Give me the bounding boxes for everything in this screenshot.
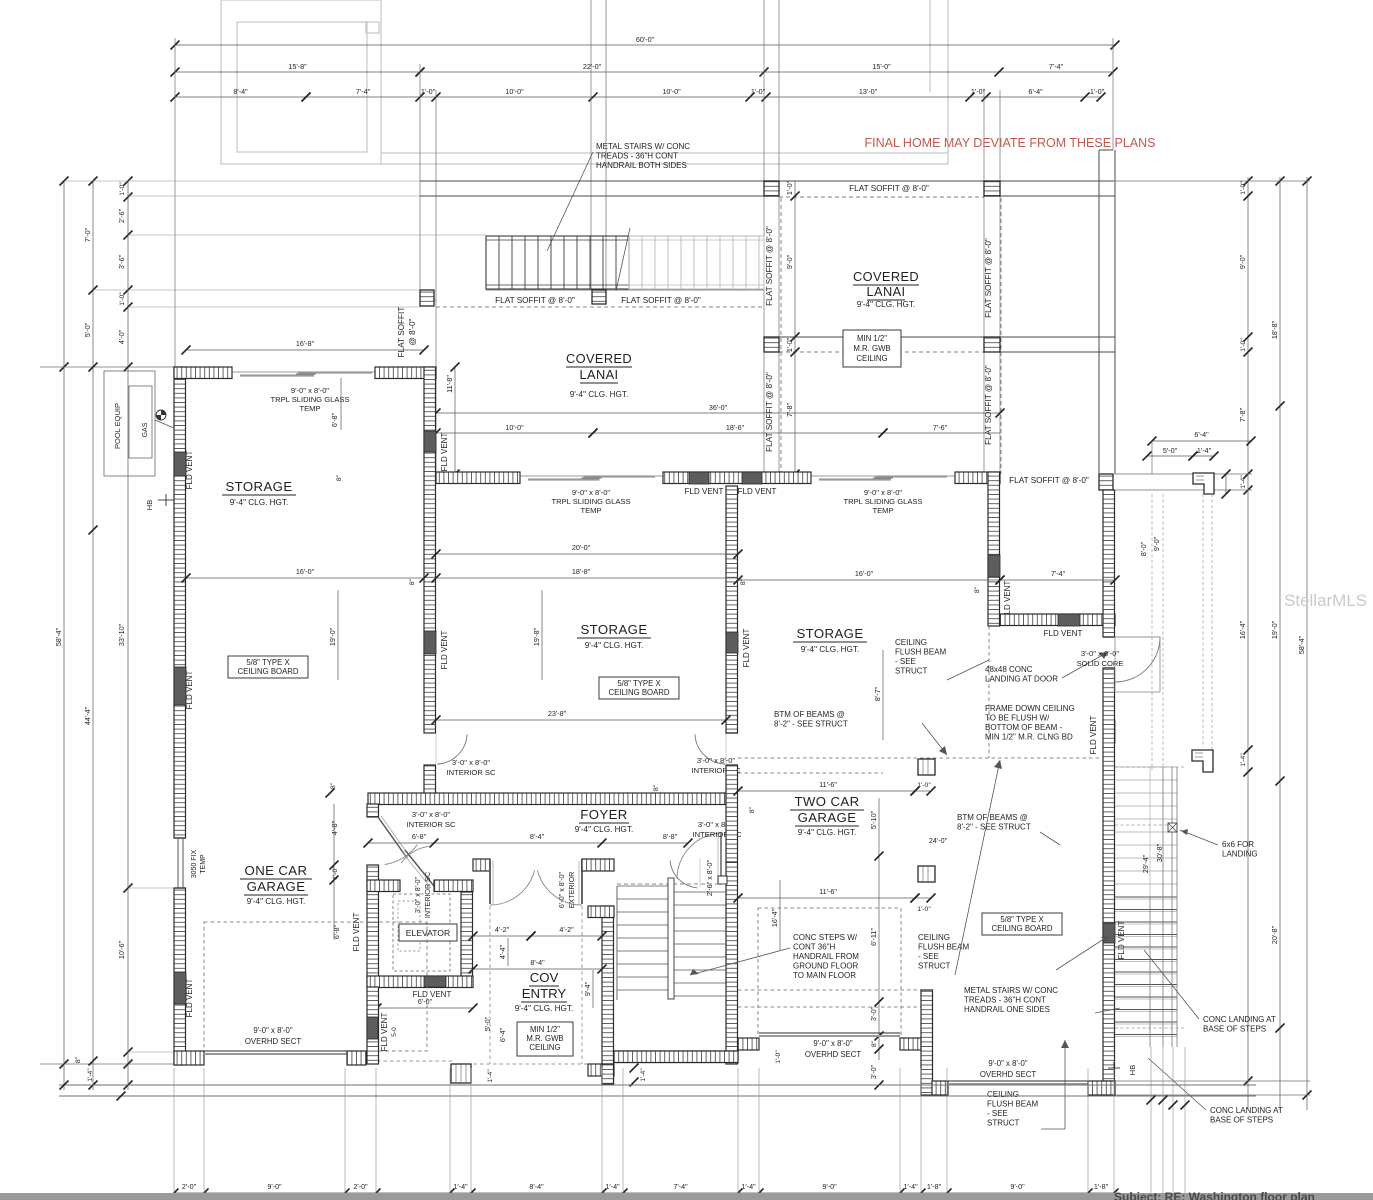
svg-text:1'-0": 1'-0" [971, 87, 986, 96]
svg-text:FLD VENT: FLD VENT [185, 979, 194, 1018]
svg-text:7'-8": 7'-8" [785, 402, 794, 417]
svg-text:10'-0": 10'-0" [662, 87, 681, 96]
dashed beam lines under ext stairs [1151, 494, 1153, 767]
svg-text:8": 8" [740, 578, 747, 585]
dim row2 [175, 71, 420, 73]
svg-text:6'-4": 6'-4" [1028, 87, 1043, 96]
svg-text:LANAI: LANAI [867, 284, 906, 299]
svg-text:OVERHD SECT: OVERHD SECT [245, 1037, 302, 1046]
column lanai B [984, 181, 1000, 196]
column lanai C [764, 337, 779, 352]
svg-text:1'-0": 1'-0" [917, 906, 931, 913]
wall stub west above elevator [367, 804, 379, 817]
exterior stairs right upper light [1115, 766, 1177, 768]
svg-text:9'-4" CLG. HGT.: 9'-4" CLG. HGT. [575, 825, 634, 834]
svg-text:FLD VENT: FLD VENT [742, 629, 751, 668]
wall storage-left north east part [375, 367, 436, 379]
cov entry dims [473, 935, 531, 937]
garage dashed outline [758, 908, 901, 1036]
svg-text:8'-2" - SEE STRUCT: 8'-2" - SEE STRUCT [774, 720, 848, 729]
svg-text:13'-0": 13'-0" [859, 87, 878, 96]
bottom right extra ext lines [1150, 1047, 1152, 1198]
svg-text:1'-4": 1'-4" [640, 1068, 647, 1082]
svg-text:CEILING: CEILING [918, 933, 950, 942]
elevator west wall [367, 865, 379, 987]
svg-text:CEILING: CEILING [856, 354, 887, 363]
svg-text:CONT 36"H: CONT 36"H [793, 943, 835, 952]
dim 16-0 storage left [186, 577, 424, 579]
garage door2 right stub [1088, 1081, 1115, 1095]
cov entry north wall east stub [582, 859, 614, 871]
garage door1 right stub [900, 1038, 921, 1050]
svg-text:6'-8": 6'-8" [330, 412, 339, 427]
landing square right wall [1115, 637, 1160, 692]
stair south wall cont [614, 1051, 738, 1063]
svg-text:4'-4": 4'-4" [498, 944, 507, 959]
svg-text:1'-0": 1'-0" [119, 292, 126, 306]
svg-text:9'-0" x 8'-0": 9'-0" x 8'-0" [291, 386, 330, 395]
svg-text:3'-0" x 8'-0": 3'-0" x 8'-0" [412, 810, 451, 819]
svg-text:OVERHD SECT: OVERHD SECT [980, 1070, 1037, 1079]
svg-text:9'-4" CLG. HGT.: 9'-4" CLG. HGT. [570, 390, 629, 399]
svg-text:8'-4": 8'-4" [233, 87, 248, 96]
svg-text:1'-4": 1'-4" [487, 1069, 494, 1083]
right dim col inner [1247, 177, 1249, 1110]
left dim col 58-4 [63, 181, 65, 1090]
svg-text:1'-0": 1'-0" [775, 1050, 782, 1064]
svg-text:16'-8": 16'-8" [296, 339, 315, 348]
svg-text:FLAT SOFFIT @ 8'-0": FLAT SOFFIT @ 8'-0" [495, 296, 575, 305]
svg-text:8'-7": 8'-7" [873, 686, 882, 701]
svg-text:10'-0": 10'-0" [505, 423, 524, 432]
elevator north wall east [434, 880, 473, 892]
cov entry north wall west stub [473, 859, 490, 871]
dim row 60-0 [175, 44, 1115, 46]
svg-text:TRPL SLIDING GLASS: TRPL SLIDING GLASS [843, 497, 922, 506]
svg-text:HB: HB [145, 500, 154, 510]
svg-text:TREADS - 36"H CONT: TREADS - 36"H CONT [964, 996, 1046, 1005]
svg-text:1'-8": 1'-8" [1094, 1182, 1109, 1191]
dim 7-4 right [1000, 579, 1115, 581]
svg-text:11'-6": 11'-6" [819, 887, 837, 896]
svg-text:44'-4": 44'-4" [83, 706, 92, 725]
pool equip box [104, 371, 155, 476]
exterior stairs right lower dark [1115, 896, 1177, 898]
svg-text:9'-4" CLG. HGT.: 9'-4" CLG. HGT. [247, 897, 306, 906]
elevator east wall [461, 892, 473, 987]
svg-text:6'-4": 6'-4" [498, 1027, 507, 1042]
svg-text:HANDRAIL FROM: HANDRAIL FROM [793, 952, 859, 961]
svg-text:8": 8" [409, 578, 416, 585]
garage dims [738, 790, 915, 792]
ceiling board box garage [982, 913, 1062, 935]
svg-text:FLAT SOFFIT @ 8'-0": FLAT SOFFIT @ 8'-0" [1009, 476, 1089, 485]
svg-text:BTM OF BEAMS @: BTM OF BEAMS @ [957, 813, 1028, 822]
svg-text:4'-8": 4'-8" [330, 820, 339, 835]
left dim col 44-4 / 7-0 / 5-0 [92, 181, 94, 1090]
door solid core right wall [1103, 636, 1115, 638]
6x6 landing symbol [1168, 823, 1177, 832]
svg-text:3'-6": 3'-6" [117, 254, 126, 269]
window 3050 fix [174, 837, 186, 839]
svg-text:1'-0": 1'-0" [785, 337, 794, 352]
svg-text:10'-6": 10'-6" [117, 940, 126, 959]
column soffit E [420, 290, 434, 306]
garage columns [918, 759, 935, 775]
svg-text:8": 8" [871, 1040, 878, 1047]
svg-text:Subject: RE: Washington floor: Subject: RE: Washington floor plan [1114, 1190, 1315, 1200]
door elevator lobby west [378, 817, 407, 858]
elevator cab dashed [393, 894, 450, 971]
svg-text:POOL EQUIP: POOL EQUIP [113, 403, 122, 449]
svg-text:@ 8'-0": @ 8'-0" [408, 318, 417, 345]
svg-text:60'-0": 60'-0" [636, 35, 655, 44]
svg-text:1'-0": 1'-0" [1090, 87, 1105, 96]
svg-text:FLD VENT: FLD VENT [185, 451, 194, 490]
bottom extension lines [173, 1068, 175, 1198]
garage east bump wall [921, 990, 933, 1095]
svg-text:6'-8": 6'-8" [412, 832, 427, 841]
svg-text:15'-8": 15'-8" [288, 62, 307, 71]
svg-text:COV: COV [530, 970, 559, 985]
svg-text:19'-0": 19'-0" [1270, 620, 1279, 639]
svg-text:INTERIOR SC: INTERIOR SC [423, 872, 432, 918]
svg-text:GARAGE: GARAGE [247, 879, 306, 894]
conc steps leader [690, 948, 790, 975]
svg-text:5'-0": 5'-0" [483, 1016, 492, 1031]
svg-text:9'-0": 9'-0" [1152, 536, 1161, 551]
dim 6-0 below elevator [377, 1007, 473, 1009]
svg-text:ENTRY: ENTRY [522, 986, 567, 1001]
svg-text:STORAGE: STORAGE [225, 479, 292, 494]
svg-text:FLD VENT: FLD VENT [1117, 921, 1126, 960]
svg-text:FLD VENT: FLD VENT [185, 671, 194, 710]
svg-text:FLD VENT: FLD VENT [1044, 629, 1083, 638]
wall stub storage-mid north west [436, 472, 520, 484]
svg-text:5'-10": 5'-10" [869, 810, 878, 829]
dim 20-0 / 18-8 storage mid [436, 553, 738, 555]
svg-text:6'-11": 6'-11" [869, 928, 878, 946]
wall storage-mid north [663, 472, 811, 484]
svg-text:TRPL SLIDING GLASS: TRPL SLIDING GLASS [551, 497, 630, 506]
wall B storage divider [726, 486, 738, 733]
svg-text:9'-0" x 8'-0": 9'-0" x 8'-0" [864, 488, 903, 497]
svg-text:1'-0": 1'-0" [421, 87, 436, 96]
svg-text:METAL STAIRS W/ CONC: METAL STAIRS W/ CONC [964, 986, 1058, 995]
svg-text:FRAME DOWN CEILING: FRAME DOWN CEILING [985, 704, 1075, 713]
svg-text:9'-0" x 8'-0": 9'-0" x 8'-0" [572, 488, 611, 497]
svg-text:33'-10": 33'-10" [117, 623, 126, 646]
svg-text:5'-0": 5'-0" [1163, 446, 1178, 455]
svg-text:CEILING BOARD: CEILING BOARD [608, 688, 669, 697]
svg-text:18'-8": 18'-8" [1270, 320, 1279, 339]
svg-text:M.R. GWB: M.R. GWB [526, 1034, 563, 1043]
svg-text:STRUCT: STRUCT [918, 962, 951, 971]
svg-text:FLUSH BEAM: FLUSH BEAM [895, 648, 946, 657]
svg-text:GROUND FLOOR: GROUND FLOOR [793, 962, 859, 971]
svg-text:6'-4": 6'-4" [1194, 430, 1209, 439]
dim 16-8 storage left [186, 349, 424, 351]
svg-text:7'-4": 7'-4" [1049, 62, 1064, 71]
right ext lines [1113, 180, 1310, 182]
svg-text:8'-4": 8'-4" [529, 1182, 544, 1191]
sliding door storage-mid west [520, 475, 663, 477]
box MIN GWB cov entry [517, 1022, 573, 1056]
ceiling board box left [228, 656, 308, 678]
svg-text:1'-4": 1'-4" [903, 1182, 918, 1191]
svg-text:7'-8": 7'-8" [1238, 407, 1247, 422]
stair handrail [668, 878, 674, 999]
wall A lower segment [424, 765, 436, 794]
dim 16-0 storage right [738, 579, 1000, 581]
svg-text:20'-8": 20'-8" [1270, 925, 1279, 944]
svg-text:FLD VENT: FLD VENT [685, 487, 724, 496]
ceiling board box mid [599, 677, 679, 699]
svg-text:8'-8": 8'-8" [663, 832, 678, 841]
svg-text:3'-0" x 8'-0": 3'-0" x 8'-0" [697, 756, 736, 765]
box MIN GWB ceiling lanai [843, 330, 901, 367]
svg-text:COVERED: COVERED [853, 269, 919, 284]
ground line 2 [59, 1095, 1256, 1097]
svg-text:1'-4": 1'-4" [453, 1182, 468, 1191]
wall elevator-west lower [367, 987, 379, 1064]
svg-text:23'-8": 23'-8" [548, 709, 567, 718]
svg-text:1'-4": 1'-4" [1240, 753, 1247, 767]
door foyer east stairwell [720, 833, 722, 879]
svg-text:- SEE: - SEE [987, 1109, 1008, 1118]
svg-text:FLAT SOFFIT @ 8'-0": FLAT SOFFIT @ 8'-0" [621, 296, 701, 305]
wall right exterior lower [1103, 668, 1115, 1081]
right dim col 58-4 [1306, 177, 1308, 1110]
svg-text:8'-4": 8'-4" [530, 832, 545, 841]
svg-text:BASE OF STEPS: BASE OF STEPS [1203, 1025, 1266, 1034]
wall C vertical [988, 472, 1000, 626]
svg-text:FLAT SOFFIT @ 8'-0": FLAT SOFFIT @ 8'-0" [765, 372, 774, 452]
foyer north wall [368, 793, 726, 805]
garage door2 left stub [931, 1081, 933, 1095]
svg-text:6'-0": 6'-0" [418, 997, 433, 1006]
svg-text:18'-8": 18'-8" [572, 567, 591, 576]
elevator label box [399, 924, 457, 941]
svg-text:LANDING AT DOOR: LANDING AT DOOR [985, 675, 1058, 684]
wall storage-right south [1000, 614, 1115, 626]
svg-text:MIN 1/2": MIN 1/2" [530, 1025, 560, 1034]
door wall B bottom [695, 734, 725, 764]
door elevator room [405, 850, 434, 886]
svg-text:FLD VENT: FLD VENT [352, 913, 361, 952]
foyer dims [368, 842, 434, 844]
svg-text:20'-0": 20'-0" [572, 543, 591, 552]
svg-text:11'-6": 11'-6" [819, 780, 837, 789]
svg-text:8": 8" [974, 586, 981, 593]
svg-text:GAS: GAS [142, 422, 149, 437]
svg-text:EXTERIOR: EXTERIOR [567, 872, 576, 909]
svg-text:7'-4": 7'-4" [673, 1182, 688, 1191]
svg-text:HB: HB [1128, 1065, 1137, 1075]
sliding door storage-left [232, 371, 375, 373]
lanai beam mid [764, 336, 1115, 338]
svg-text:7'-4": 7'-4" [356, 87, 371, 96]
svg-text:2'-0": 2'-0" [182, 1182, 197, 1191]
svg-text:2'-6": 2'-6" [117, 208, 126, 223]
dim 36-0 [436, 412, 1000, 414]
svg-text:4'-2": 4'-2" [495, 925, 510, 934]
svg-text:HANDRAIL BOTH SIDES: HANDRAIL BOTH SIDES [596, 161, 687, 170]
front wall west of stairs [588, 1064, 614, 1076]
svg-text:6x6 FOR: 6x6 FOR [1222, 840, 1254, 849]
dim row3 [175, 96, 306, 98]
svg-text:9'-0" x 8'-0": 9'-0" x 8'-0" [988, 1059, 1028, 1068]
svg-text:9'-0": 9'-0" [822, 1182, 837, 1191]
svg-text:OVERHD SECT: OVERHD SECT [805, 1050, 862, 1059]
svg-text:3'-0" x 8'-0": 3'-0" x 8'-0" [452, 758, 491, 767]
cov entry porch dashed [489, 906, 491, 1064]
svg-text:1'-4": 1'-4" [1197, 446, 1212, 455]
flat soffit labels horizontal [490, 296, 580, 306]
svg-text:FOYER: FOYER [580, 807, 627, 822]
svg-text:16'-0": 16'-0" [296, 567, 315, 576]
svg-text:9'-0": 9'-0" [785, 254, 794, 269]
svg-text:1'-8": 1'-8" [927, 1182, 942, 1191]
svg-text:HANDRAIL ONE SIDES: HANDRAIL ONE SIDES [964, 1005, 1050, 1014]
wall storage-right north + corner [955, 472, 1000, 484]
lanai beam upper [420, 180, 1115, 182]
stair west wall top stub [588, 906, 614, 918]
svg-text:FLAT SOFFIT @ 8'-0": FLAT SOFFIT @ 8'-0" [984, 238, 993, 318]
svg-text:9'-4" CLG. HGT.: 9'-4" CLG. HGT. [857, 300, 916, 309]
svg-text:FLD VENT: FLD VENT [440, 433, 449, 472]
svg-text:9'-0" x 8'-0": 9'-0" x 8'-0" [253, 1026, 293, 1035]
svg-text:5/8" TYPE X: 5/8" TYPE X [617, 679, 661, 688]
svg-text:5-0: 5-0 [391, 1027, 398, 1037]
svg-text:CONC STEPS W/: CONC STEPS W/ [793, 933, 858, 942]
gas meter [156, 410, 166, 420]
svg-text:FLAT SOFFIT @ 8'-0": FLAT SOFFIT @ 8'-0" [849, 184, 929, 193]
svg-text:SOLID CORE: SOLID CORE [1077, 659, 1124, 668]
svg-text:36'-0": 36'-0" [709, 403, 728, 412]
dashed under pilaster [1202, 494, 1204, 748]
svg-text:FLD VENT: FLD VENT [440, 631, 449, 670]
dims 6-4 5-0 1-4 right [1152, 440, 1251, 442]
svg-text:BASE OF STEPS: BASE OF STEPS [1210, 1116, 1273, 1125]
svg-text:FLD VENT: FLD VENT [738, 487, 777, 496]
svg-text:CONC LANDING AT: CONC LANDING AT [1210, 1106, 1283, 1115]
svg-text:29'-4": 29'-4" [1141, 854, 1150, 873]
svg-text:8": 8" [330, 782, 337, 789]
svg-text:1'-4": 1'-4" [605, 1182, 620, 1191]
svg-text:3'-0" x 8'-0": 3'-0" x 8'-0" [413, 876, 422, 913]
svg-text:58'-4": 58'-4" [1297, 635, 1306, 654]
ground line 1 [59, 1084, 1256, 1086]
svg-text:9'-4" CLG. HGT.: 9'-4" CLG. HGT. [585, 641, 644, 650]
garage door 2 [948, 1080, 1088, 1082]
stairwell interior stairs [617, 883, 727, 885]
cov entry exterior double door [489, 859, 491, 904]
svg-text:METAL STAIRS W/ CONC: METAL STAIRS W/ CONC [596, 142, 690, 151]
right dim col 2 [1279, 177, 1281, 1110]
svg-text:CEILING: CEILING [987, 1090, 1019, 1099]
dim 10-0 / 18-6 / 7-6 [436, 432, 593, 434]
svg-text:INTERIOR SC: INTERIOR SC [447, 768, 496, 777]
svg-text:BTM OF BEAMS @: BTM OF BEAMS @ [774, 710, 845, 719]
svg-text:9'-0": 9'-0" [267, 1182, 282, 1191]
svg-text:9'-4" CLG. HGT.: 9'-4" CLG. HGT. [230, 498, 289, 507]
svg-text:MIN 1/2": MIN 1/2" [857, 334, 887, 343]
svg-text:8": 8" [653, 784, 660, 791]
svg-text:24'-0": 24'-0" [929, 836, 948, 845]
svg-text:STRUCT: STRUCT [895, 667, 928, 676]
bottom dim row [174, 1192, 1114, 1194]
pilaster right [1193, 473, 1214, 494]
wall storage-left north west part [174, 367, 232, 379]
svg-text:- SEE: - SEE [918, 952, 939, 961]
column soffit F [592, 290, 606, 304]
svg-text:4'-0": 4'-0" [117, 329, 126, 344]
svg-text:8'-4": 8'-4" [530, 958, 545, 967]
svg-text:GARAGE: GARAGE [798, 810, 857, 825]
door 2-6 stairwell [726, 861, 738, 863]
svg-text:2'-0": 2'-0" [353, 1182, 368, 1191]
svg-text:FINAL HOME MAY DEVIATE FROM TH: FINAL HOME MAY DEVIATE FROM THESE PLANS [864, 136, 1155, 150]
svg-text:TWO CAR: TWO CAR [794, 794, 859, 809]
svg-text:18'-6": 18'-6" [726, 423, 745, 432]
lanai right edge lines [1098, 150, 1100, 474]
svg-text:22'-0": 22'-0" [583, 62, 602, 71]
flat soffit labels vertical [766, 221, 778, 311]
svg-text:16'-4": 16'-4" [770, 908, 779, 927]
soffit dashed lines lanai [436, 306, 765, 308]
svg-text:16'-4": 16'-4" [1238, 620, 1247, 639]
svg-text:5/8" TYPE X: 5/8" TYPE X [246, 658, 290, 667]
svg-text:1'-4": 1'-4" [1240, 475, 1247, 489]
lanai inner vertical dim column [794, 181, 796, 474]
wall right exterior upper [1103, 490, 1115, 637]
svg-text:58'-4": 58'-4" [54, 627, 63, 646]
svg-text:CEILING BOARD: CEILING BOARD [991, 924, 1052, 933]
svg-text:7'-4": 7'-4" [1051, 569, 1066, 578]
garage left bottom corner wall [174, 1051, 204, 1065]
svg-text:FLUSH BEAM: FLUSH BEAM [987, 1100, 1038, 1109]
svg-text:3'-0": 3'-0" [869, 1064, 878, 1079]
extension lines top [174, 38, 176, 367]
svg-text:19'-0": 19'-0" [328, 627, 337, 646]
svg-text:TRPL SLIDING GLASS: TRPL SLIDING GLASS [270, 395, 349, 404]
svg-text:9'-4" CLG. HGT.: 9'-4" CLG. HGT. [798, 828, 857, 837]
svg-text:30'-8": 30'-8" [1155, 843, 1164, 862]
svg-text:16'-0": 16'-0" [855, 569, 874, 578]
svg-text:10'-0": 10'-0" [505, 87, 524, 96]
svg-text:5'-0": 5'-0" [83, 322, 92, 337]
svg-text:1'-4": 1'-4" [741, 1182, 756, 1191]
stairs top run light part [629, 236, 764, 289]
svg-text:MIN 1/2" M.R. CLNG BD: MIN 1/2" M.R. CLNG BD [985, 733, 1073, 742]
svg-text:8'-0": 8'-0" [1139, 541, 1148, 556]
svg-text:11'-8": 11'-8" [445, 375, 454, 393]
column lanai A [764, 181, 779, 196]
pilaster right lower [1192, 750, 1213, 772]
svg-text:1'-0": 1'-0" [1240, 181, 1247, 195]
svg-text:TO MAIN FLOOR: TO MAIN FLOOR [793, 971, 856, 980]
column right wall top [1099, 474, 1113, 490]
svg-text:8": 8" [749, 806, 756, 813]
svg-text:STORAGE: STORAGE [580, 622, 647, 637]
wall left exterior [174, 367, 186, 838]
svg-text:7'-0": 7'-0" [83, 227, 92, 242]
elevator north wall [367, 880, 400, 892]
garage door 1 [759, 1032, 900, 1034]
dashed lines garage to stairs [1115, 766, 1185, 768]
ghost outline upper floor [221, 0, 381, 164]
